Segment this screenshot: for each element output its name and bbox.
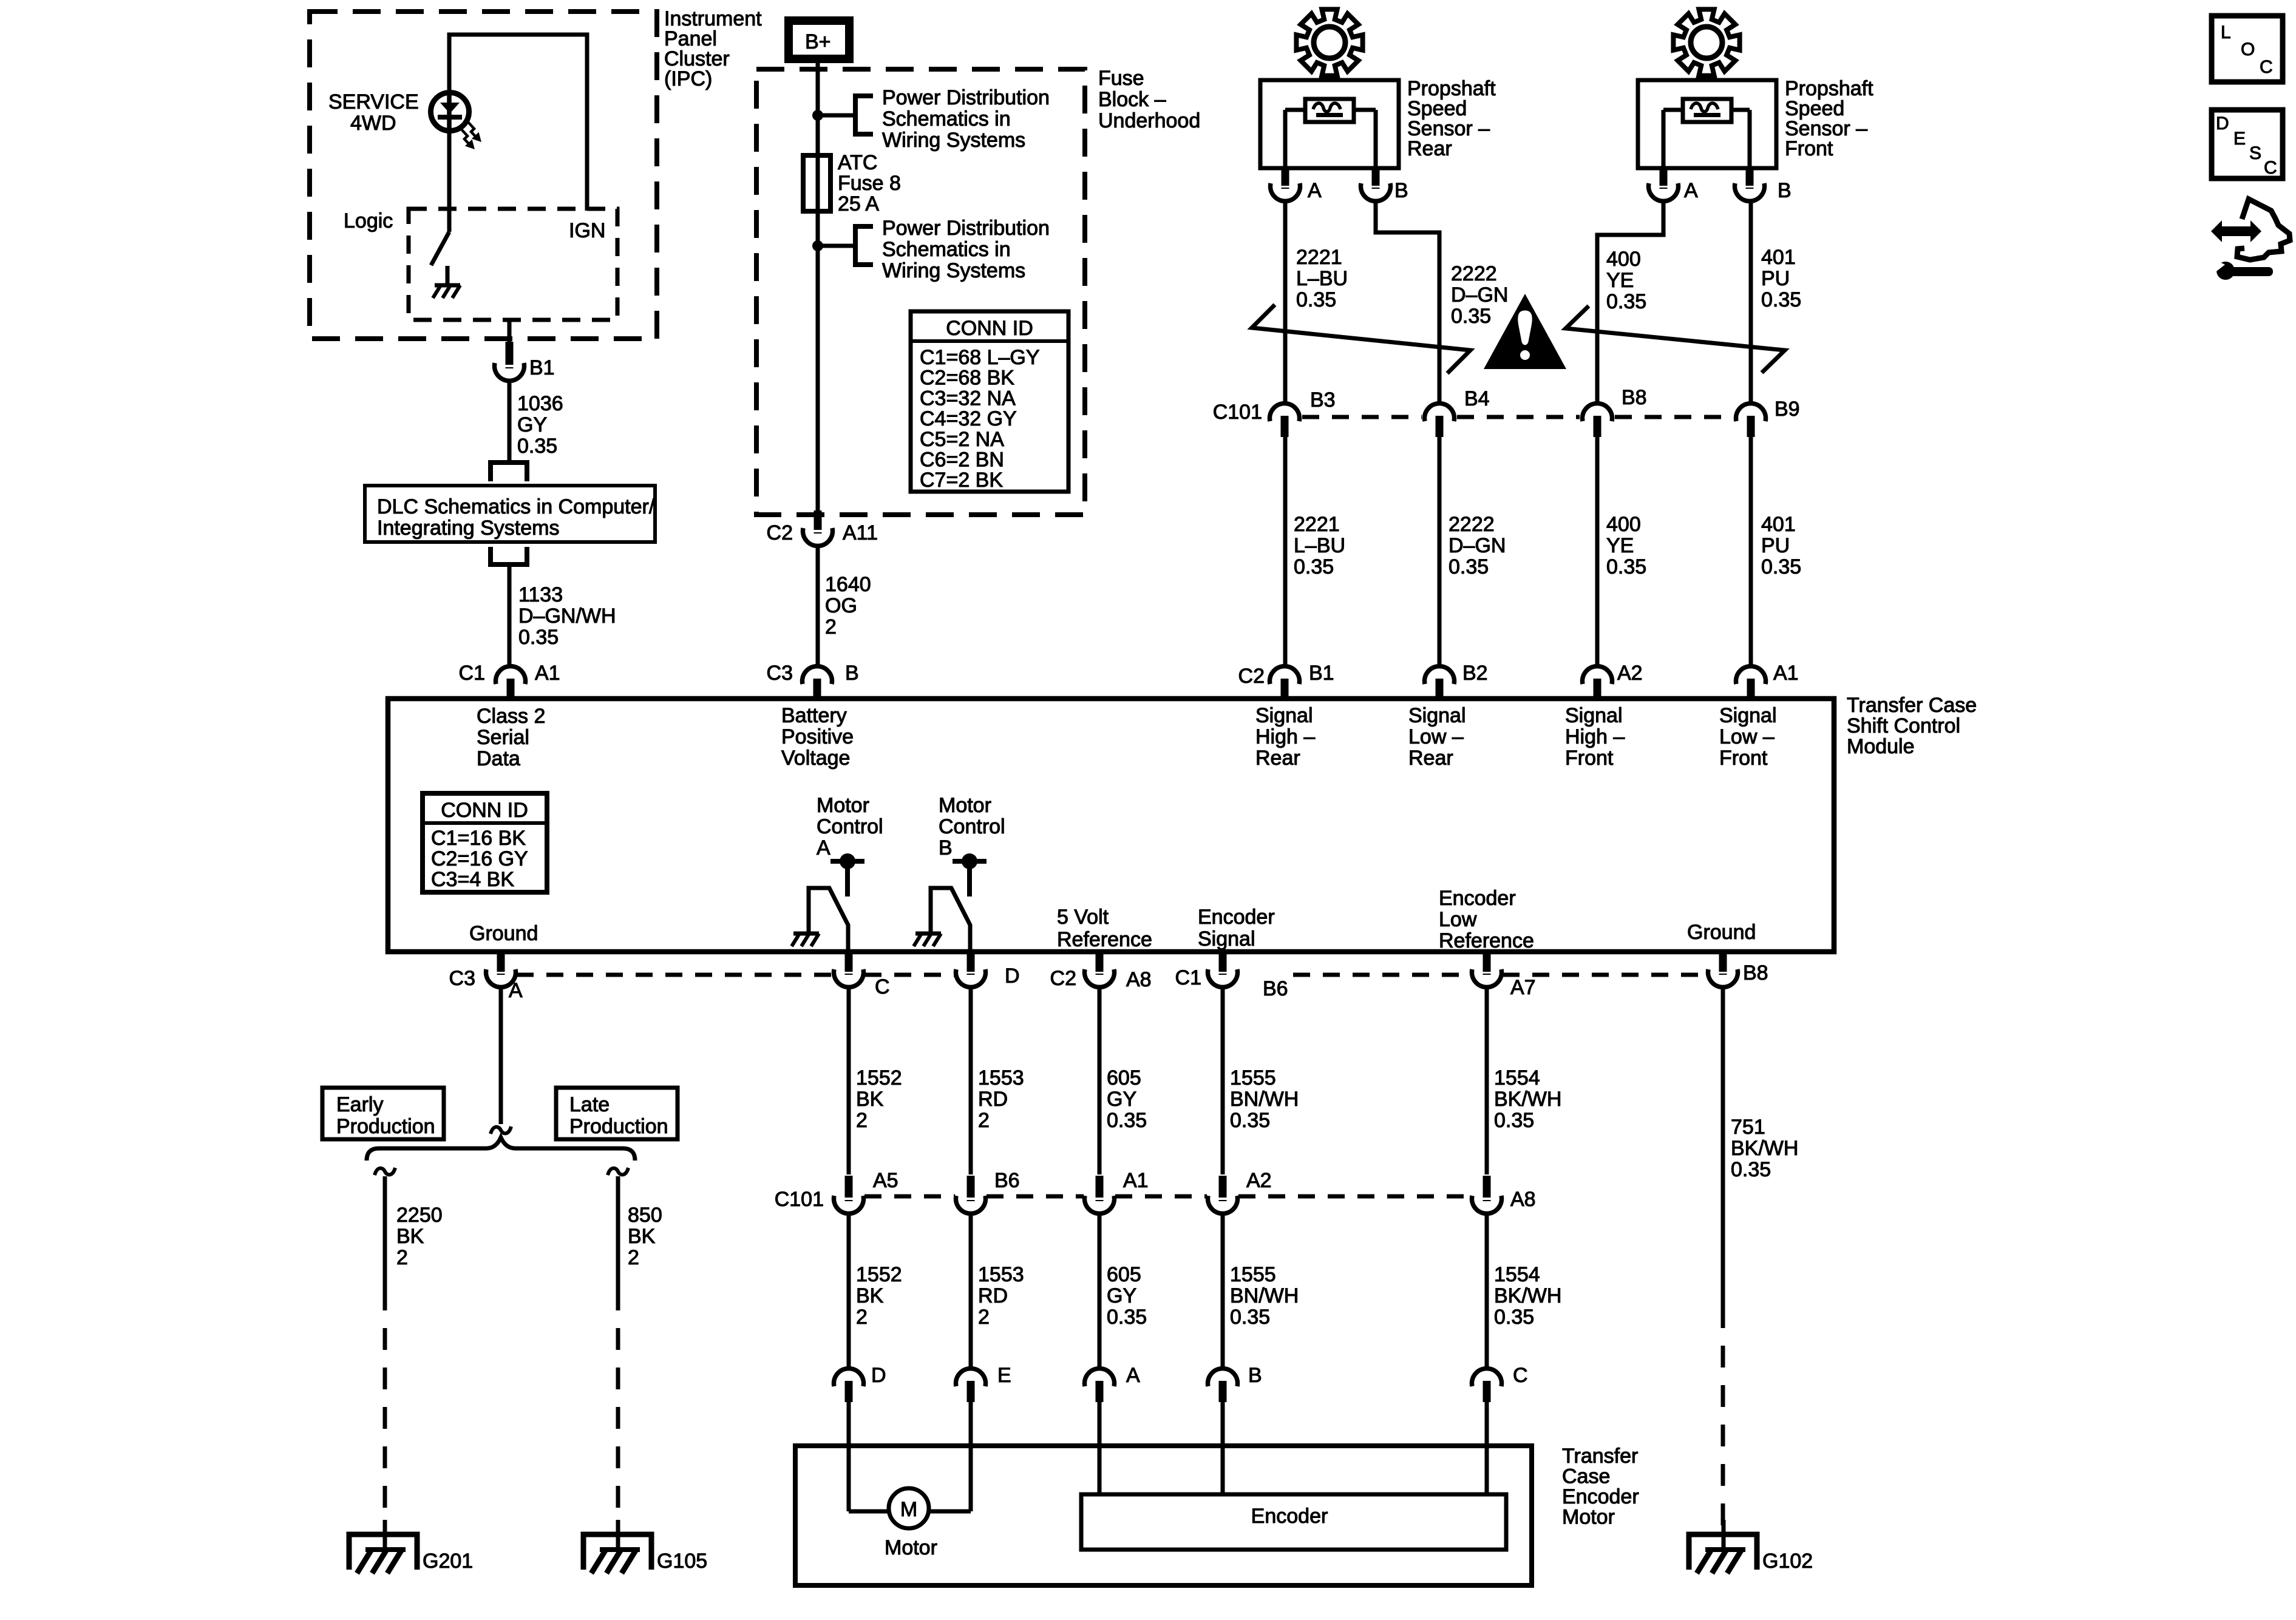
svg-text:0.35: 0.35 [517,435,557,458]
svg-text:B4: B4 [1464,387,1490,410]
svg-text:Reference: Reference [1057,928,1152,951]
propshaft speed sensor rear [1260,80,1399,168]
svg-text:Integrating Systems: Integrating Systems [377,517,559,540]
wire B to encoder [1221,1402,1225,1494]
wire 1552 lower segment [847,1215,851,1368]
wire 2221 rear A [1283,202,1288,402]
svg-text:Front: Front [1565,747,1614,770]
svg-text:Case: Case [1562,1465,1610,1488]
svg-text:0.35: 0.35 [518,626,559,649]
svg-text:2222: 2222 [1449,513,1495,536]
wire E to motor [969,1402,973,1511]
ground G201 [383,1520,387,1550]
svg-text:2: 2 [396,1246,408,1269]
svg-text:S: S [2249,143,2261,163]
svg-text:A7: A7 [1510,976,1536,999]
svg-text:4WD: 4WD [350,112,396,135]
svg-text:GY: GY [1107,1088,1136,1111]
svg-text:CONN ID: CONN ID [946,317,1033,340]
svg-text:A11: A11 [843,521,878,544]
motor control A switch blade [809,888,848,951]
wire 1554 lower segment [1485,1215,1489,1368]
svg-text:A: A [817,836,830,859]
connector C2 B1 module pin [1270,666,1300,684]
motor control B switch blade [931,888,970,951]
svg-text:G102: G102 [1762,1550,1813,1573]
svg-text:Data: Data [477,747,520,770]
wire ground C3 A down [499,988,503,1124]
wire 401 lower [1749,436,1753,665]
connector C motor A pin [845,954,853,972]
svg-text:Logic: Logic [344,209,393,232]
wire 1036 B1 to DLC [508,382,512,461]
svg-text:0.35: 0.35 [1494,1306,1534,1329]
svg-text:Signal: Signal [1408,704,1466,727]
splice tilde main [491,1127,511,1134]
ground motor control A [793,932,819,936]
svg-text:400: 400 [1606,513,1641,536]
branch to power distribution 1 [818,114,855,118]
svg-text:B1: B1 [1309,662,1334,685]
wire 1553 lower segment [969,1215,973,1368]
svg-text:C: C [1513,1364,1528,1387]
motor control B contact [953,859,987,864]
CONN ID table module [423,793,547,892]
svg-text:D: D [1005,964,1020,988]
svg-text:C4=32 GY: C4=32 GY [920,407,1017,430]
Fuse Block Underhood dashed box [756,69,1085,515]
svg-text:0.35: 0.35 [1107,1306,1147,1329]
svg-text:RD: RD [978,1088,1008,1111]
svg-text:2221: 2221 [1294,513,1340,536]
svg-text:2250: 2250 [396,1204,443,1227]
svg-text:0.35: 0.35 [1451,305,1491,328]
svg-text:D: D [2216,114,2229,134]
svg-text:Rear: Rear [1255,747,1300,770]
svg-text:Low –: Low – [1719,725,1775,748]
svg-text:A2: A2 [1246,1169,1272,1192]
svg-text:Wiring Systems: Wiring Systems [882,259,1025,282]
connector B encoder motor [1207,1369,1237,1386]
svg-text:BK: BK [396,1225,424,1248]
svg-text:B6: B6 [994,1169,1020,1192]
svg-text:IGN: IGN [569,219,605,242]
svg-text:B2: B2 [1462,662,1488,685]
wire 1640 to module [816,547,820,665]
svg-text:Shift Control: Shift Control [1847,714,1960,737]
svg-text:1553: 1553 [978,1066,1024,1090]
svg-text:L–BU: L–BU [1296,267,1348,290]
svg-text:A1: A1 [1773,662,1799,685]
svg-text:Front: Front [1785,137,1833,160]
svg-text:0.35: 0.35 [1294,555,1334,578]
wire 605 upper segment [1098,988,1102,1174]
dashed line C101 upper [1302,415,1422,419]
svg-text:1036: 1036 [517,392,563,415]
svg-text:B6: B6 [1263,977,1288,1000]
Transfer Case Shift Control Module box [388,699,1834,952]
Logic dashed box [409,209,617,320]
connector C2 A8 5 volt pin [1096,954,1104,972]
svg-text:751: 751 [1731,1116,1765,1139]
svg-text:1552: 1552 [856,1263,902,1286]
svg-text:A1: A1 [1123,1169,1149,1192]
LOC icon box [2212,16,2283,82]
svg-text:401: 401 [1761,246,1796,269]
svg-text:BN/WH: BN/WH [1230,1284,1299,1307]
svg-text:Fuse: Fuse [1098,67,1144,90]
svg-text:YE: YE [1606,534,1634,557]
svg-text:1554: 1554 [1494,1263,1540,1286]
svg-text:B: B [1248,1364,1262,1387]
svg-text:C: C [2264,158,2277,178]
svg-text:Reference: Reference [1439,929,1534,952]
svg-text:SERVICE: SERVICE [328,90,419,114]
svg-text:B3: B3 [1310,388,1336,412]
svg-text:Control: Control [817,815,883,838]
branch to power distribution 2 [818,244,855,248]
svg-text:Production: Production [336,1115,435,1138]
svg-text:2: 2 [978,1306,990,1329]
svg-text:A8: A8 [1126,968,1152,991]
svg-text:BK: BK [628,1225,656,1248]
svg-text:Encoder: Encoder [1562,1485,1639,1508]
svg-text:C2=68 BK: C2=68 BK [920,367,1014,390]
dashed line module bottom row [517,973,833,977]
svg-text:Encoder: Encoder [1251,1505,1328,1528]
connector D encoder motor [834,1369,863,1386]
svg-text:2: 2 [856,1306,868,1329]
svg-text:A5: A5 [873,1169,898,1192]
svg-text:A: A [1684,179,1698,202]
svg-text:(IPC): (IPC) [664,67,712,90]
off-page bracket below DLC box [491,547,527,564]
early late production brace [367,1137,635,1161]
svg-text:Underhood: Underhood [1098,109,1200,132]
svg-text:Low: Low [1439,908,1477,931]
svg-text:850: 850 [628,1204,662,1227]
svg-text:400: 400 [1606,248,1641,271]
svg-text:401: 401 [1761,513,1796,536]
LED light arrows [467,121,478,140]
gear icon front [1673,9,1739,75]
junction dot 1 [812,110,823,121]
svg-text:605: 605 [1107,1263,1141,1286]
connector C101 A5 [845,1176,853,1198]
svg-text:B8: B8 [1743,961,1768,985]
propshaft speed sensor front [1638,80,1776,168]
wire fuse to C2 A11 [816,246,820,512]
ground IPC logic [446,266,450,284]
svg-text:2: 2 [628,1246,639,1269]
svg-text:0.35: 0.35 [1761,288,1801,311]
svg-text:C2: C2 [1238,665,1265,688]
svg-text:Early: Early [336,1093,383,1116]
dashed line C101 lower [864,1195,955,1199]
svg-text:0.35: 0.35 [1230,1109,1270,1132]
svg-text:C3=4 BK: C3=4 BK [431,868,514,891]
svg-text:E: E [2233,129,2246,149]
svg-text:Front: Front [1719,747,1768,770]
svg-text:Transfer: Transfer [1562,1445,1638,1468]
connector C encoder motor [1472,1369,1502,1386]
svg-text:L: L [2221,22,2231,42]
svg-text:OG: OG [825,594,857,617]
fuse ATC Fuse 8 25A [803,155,830,211]
break symbol front pair [1566,306,1785,373]
DLC Schematics box [365,486,655,542]
svg-text:D–GN/WH: D–GN/WH [518,605,616,628]
connector A7 encoder low pin [1483,954,1491,972]
svg-text:ATC: ATC [838,151,877,174]
svg-text:1133: 1133 [518,583,563,606]
svg-text:Signal: Signal [1565,704,1623,727]
svg-text:0.35: 0.35 [1107,1109,1147,1132]
Encoder box [1081,1494,1506,1550]
svg-text:High –: High – [1565,725,1625,748]
svg-text:0.35: 0.35 [1731,1158,1771,1181]
CONN ID table fuse block [911,311,1068,492]
svg-text:RD: RD [978,1284,1008,1307]
svg-text:D: D [871,1364,886,1387]
ground G102 [1722,1520,1726,1550]
svg-text:E: E [997,1364,1011,1387]
motor M [889,1488,929,1528]
component locator icon [2237,199,2290,260]
svg-text:C5=2 NA: C5=2 NA [920,428,1004,451]
svg-text:0.35: 0.35 [1449,555,1489,578]
off-page bracket above DLC box [491,463,527,481]
svg-text:C: C [875,975,890,998]
svg-text:C6=2 BN: C6=2 BN [920,449,1004,472]
Transfer Case Encoder Motor box [795,1446,1532,1585]
connector C3 A ground pin [497,954,505,972]
svg-text:0.35: 0.35 [1606,555,1646,578]
svg-text:BK: BK [856,1284,884,1307]
svg-text:C2=16 GY: C2=16 GY [431,847,528,870]
connector A2 module pin [1583,666,1612,684]
svg-text:Module: Module [1847,735,1915,758]
svg-text:0.35: 0.35 [1494,1109,1534,1132]
svg-text:BK/WH: BK/WH [1494,1284,1561,1307]
wire C to encoder [1485,1402,1489,1494]
Early Production box [322,1088,444,1139]
svg-text:BN/WH: BN/WH [1230,1088,1299,1111]
svg-text:Block –: Block – [1098,88,1166,111]
svg-text:Control: Control [939,815,1005,838]
svg-text:Battery: Battery [781,704,847,727]
connector D motor B pin [967,954,975,972]
wire 1133 DLC to module [508,564,512,665]
svg-text:Voltage: Voltage [781,747,850,770]
break symbol rear pair [1252,305,1470,373]
svg-text:C1=68 L–GY: C1=68 L–GY [920,346,1040,369]
svg-text:Ground: Ground [1687,921,1756,944]
connector B8 ground pin [1719,954,1727,972]
svg-text:G105: G105 [657,1550,707,1573]
wire logic box to B1 [508,320,512,343]
indicator LED SERVICE 4WD [431,93,469,131]
wire IPC internal loop from LED to IGN [449,35,587,211]
svg-text:25 A: 25 A [838,192,879,215]
svg-text:Signal: Signal [1255,704,1313,727]
svg-text:Wiring Systems: Wiring Systems [882,129,1025,152]
connector C101 B6 [967,1176,975,1198]
svg-text:C2: C2 [1050,967,1076,990]
warning triangle [1484,294,1566,369]
svg-text:5 Volt: 5 Volt [1057,906,1109,929]
svg-text:0.35: 0.35 [1296,288,1336,311]
svg-text:Motor: Motor [939,794,991,817]
svg-text:0.35: 0.35 [1606,290,1646,313]
svg-text:Encoder: Encoder [1198,906,1275,929]
svg-text:Schematics in: Schematics in [882,107,1011,130]
svg-text:B+: B+ [805,30,831,53]
svg-text:0.35: 0.35 [1230,1306,1270,1329]
wire 1555 lower segment [1221,1215,1225,1368]
svg-text:Motor: Motor [817,794,869,817]
connector E encoder motor [956,1369,985,1386]
svg-text:C2: C2 [767,521,793,544]
svg-text:C3: C3 [449,967,475,990]
connector C101 A2 [1219,1176,1227,1198]
svg-text:C101: C101 [1213,401,1262,424]
svg-text:B: B [1394,179,1408,202]
svg-text:Schematics in: Schematics in [882,238,1011,261]
svg-text:Encoder: Encoder [1439,887,1516,910]
Late Production box [556,1088,678,1139]
connector B1 at IPC [506,342,514,365]
svg-text:2: 2 [856,1109,868,1132]
svg-text:G201: G201 [423,1550,473,1573]
svg-text:Late: Late [569,1093,610,1116]
svg-text:PU: PU [1761,534,1790,557]
svg-text:C1=16 BK: C1=16 BK [431,827,526,850]
svg-text:B: B [845,662,859,685]
svg-text:D–GN: D–GN [1451,283,1508,307]
svg-text:1555: 1555 [1230,1263,1276,1286]
svg-text:0.35: 0.35 [1761,555,1801,578]
connector A1 module pin right [1736,666,1766,684]
svg-text:PU: PU [1761,267,1790,290]
svg-text:1554: 1554 [1494,1066,1540,1090]
svg-text:Production: Production [569,1115,668,1138]
svg-text:Motor: Motor [1562,1506,1615,1529]
svg-text:A: A [1126,1364,1140,1387]
svg-text:B8: B8 [1622,386,1647,409]
wire A to encoder [1098,1402,1102,1494]
svg-text:C3: C3 [767,662,793,685]
gear icon rear [1296,9,1362,75]
wire 2222 rear B with jog [1376,202,1439,402]
svg-text:A: A [1308,179,1322,202]
svg-text:Power Distribution: Power Distribution [882,217,1050,240]
Instrument Panel Cluster (IPC) dashed box [310,12,657,339]
switch in IPC logic [431,232,449,265]
wire LED to switch [447,132,452,232]
svg-text:Class 2: Class 2 [477,705,545,728]
connector C1 B6 encoder signal pin [1219,954,1227,972]
svg-text:1555: 1555 [1230,1066,1276,1090]
svg-text:GY: GY [1107,1284,1136,1307]
svg-text:B: B [939,836,953,859]
svg-text:BK/WH: BK/WH [1731,1137,1798,1160]
connector A encoder motor [1085,1369,1115,1386]
svg-text:High –: High – [1255,725,1315,748]
svg-text:2: 2 [978,1109,990,1132]
svg-text:GY: GY [517,413,547,436]
svg-text:1640: 1640 [825,573,871,596]
wire B+ to fuse [816,63,820,246]
wire 605 lower segment [1098,1215,1102,1368]
svg-text:Transfer Case: Transfer Case [1847,694,1977,717]
connector C1 A1 module pin [496,666,526,684]
wire 2221 lower [1283,436,1288,665]
wire 850 late production [608,1168,628,1175]
svg-text:A8: A8 [1510,1188,1536,1211]
svg-text:B1: B1 [529,356,555,379]
wire D to motor [847,1402,851,1511]
DESC icon box [2212,110,2283,178]
ground G105 [616,1520,620,1550]
wire 2222 lower [1438,436,1442,665]
svg-text:C3=32 NA: C3=32 NA [920,387,1016,410]
svg-text:A1: A1 [535,662,560,685]
svg-text:C101: C101 [775,1188,824,1211]
svg-text:BK: BK [856,1088,884,1111]
svg-text:YE: YE [1606,269,1634,292]
svg-text:1552: 1552 [856,1066,902,1090]
connector B2 module pin [1425,666,1455,684]
connector C3 B module pin [803,666,832,684]
svg-text:Motor: Motor [885,1536,937,1559]
svg-text:Serial: Serial [477,726,529,749]
svg-text:O: O [2241,39,2255,59]
svg-text:Rear: Rear [1407,137,1452,160]
svg-text:L–BU: L–BU [1294,534,1345,557]
svg-text:C: C [2260,57,2273,77]
wire 1553 upper segment [969,988,973,1174]
wire 400 lower [1595,436,1600,665]
svg-text:A2: A2 [1617,662,1643,685]
svg-text:C7=2 BK: C7=2 BK [920,469,1003,492]
svg-text:Rear: Rear [1408,747,1453,770]
connector C101 A1 [1096,1176,1104,1198]
svg-text:2222: 2222 [1451,262,1497,285]
wire 1552 upper segment [847,988,851,1174]
wire 751 ground [1721,988,1725,1306]
wire 400 front A with jog [1597,202,1663,402]
svg-text:DLC Schematics in Computer/: DLC Schematics in Computer/ [377,495,655,518]
connector C101 A8 [1483,1176,1491,1198]
svg-text:605: 605 [1107,1066,1141,1090]
svg-text:1553: 1553 [978,1263,1024,1286]
svg-text:Signal: Signal [1719,704,1777,727]
wrench icon [2216,262,2235,280]
wire 1555 upper segment [1221,988,1225,1174]
svg-text:CONN ID: CONN ID [441,799,528,822]
motor control A contact [830,859,864,864]
svg-text:A: A [509,979,523,1002]
B+ power feed box [789,21,849,59]
svg-text:C1: C1 [1175,966,1201,989]
svg-text:Ground: Ground [469,922,538,945]
svg-text:BK/WH: BK/WH [1494,1088,1561,1111]
svg-text:2221: 2221 [1296,246,1342,269]
svg-text:Signal: Signal [1198,927,1255,951]
svg-text:2: 2 [825,615,837,639]
svg-text:M: M [900,1498,917,1521]
